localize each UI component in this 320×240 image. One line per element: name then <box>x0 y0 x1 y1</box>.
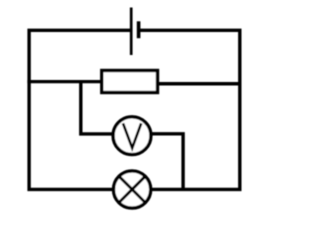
wire: voltmeter branch left (down from resistor-row node, right to voltmeter) <box>81 82 115 134</box>
lamp L1 circle <box>114 171 151 208</box>
voltmeter V1 circle <box>113 117 151 155</box>
wire: voltmeter branch right (from voltmeter down to bottom wire) <box>150 134 183 190</box>
lamp L1 cross stroke 2 <box>119 176 145 202</box>
wire: resistor row right segment <box>157 82 240 86</box>
wire: top-right from battery thick plate to right corner, down right side, to lamp right terminal <box>139 30 240 189</box>
wire: resistor row left segment <box>27 80 102 83</box>
lamp L1 cross stroke 1 <box>119 176 145 202</box>
battery B1 long plate (positive) <box>130 8 133 56</box>
voltmeter V1 letter V <box>123 123 141 148</box>
battery B1 short thick plate (negative) <box>137 21 141 38</box>
wire: top-left from battery long plate to left corner, down left side, to lamp left terminal <box>29 30 131 189</box>
resistor R1 body <box>102 71 158 93</box>
